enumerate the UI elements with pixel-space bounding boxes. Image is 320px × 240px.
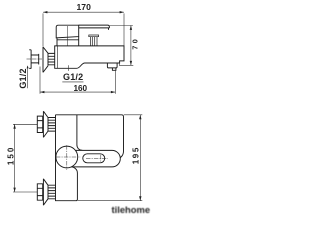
svg-text:160: 160 — [73, 84, 87, 93]
svg-text:70: 70 — [131, 37, 140, 50]
svg-text:tilehome: tilehome — [112, 204, 151, 215]
svg-text:G1/2: G1/2 — [18, 68, 28, 88]
svg-text:170: 170 — [77, 2, 92, 12]
svg-text:G1/2: G1/2 — [63, 72, 83, 82]
svg-text:195: 195 — [132, 146, 141, 164]
svg-text:150: 150 — [6, 146, 15, 165]
